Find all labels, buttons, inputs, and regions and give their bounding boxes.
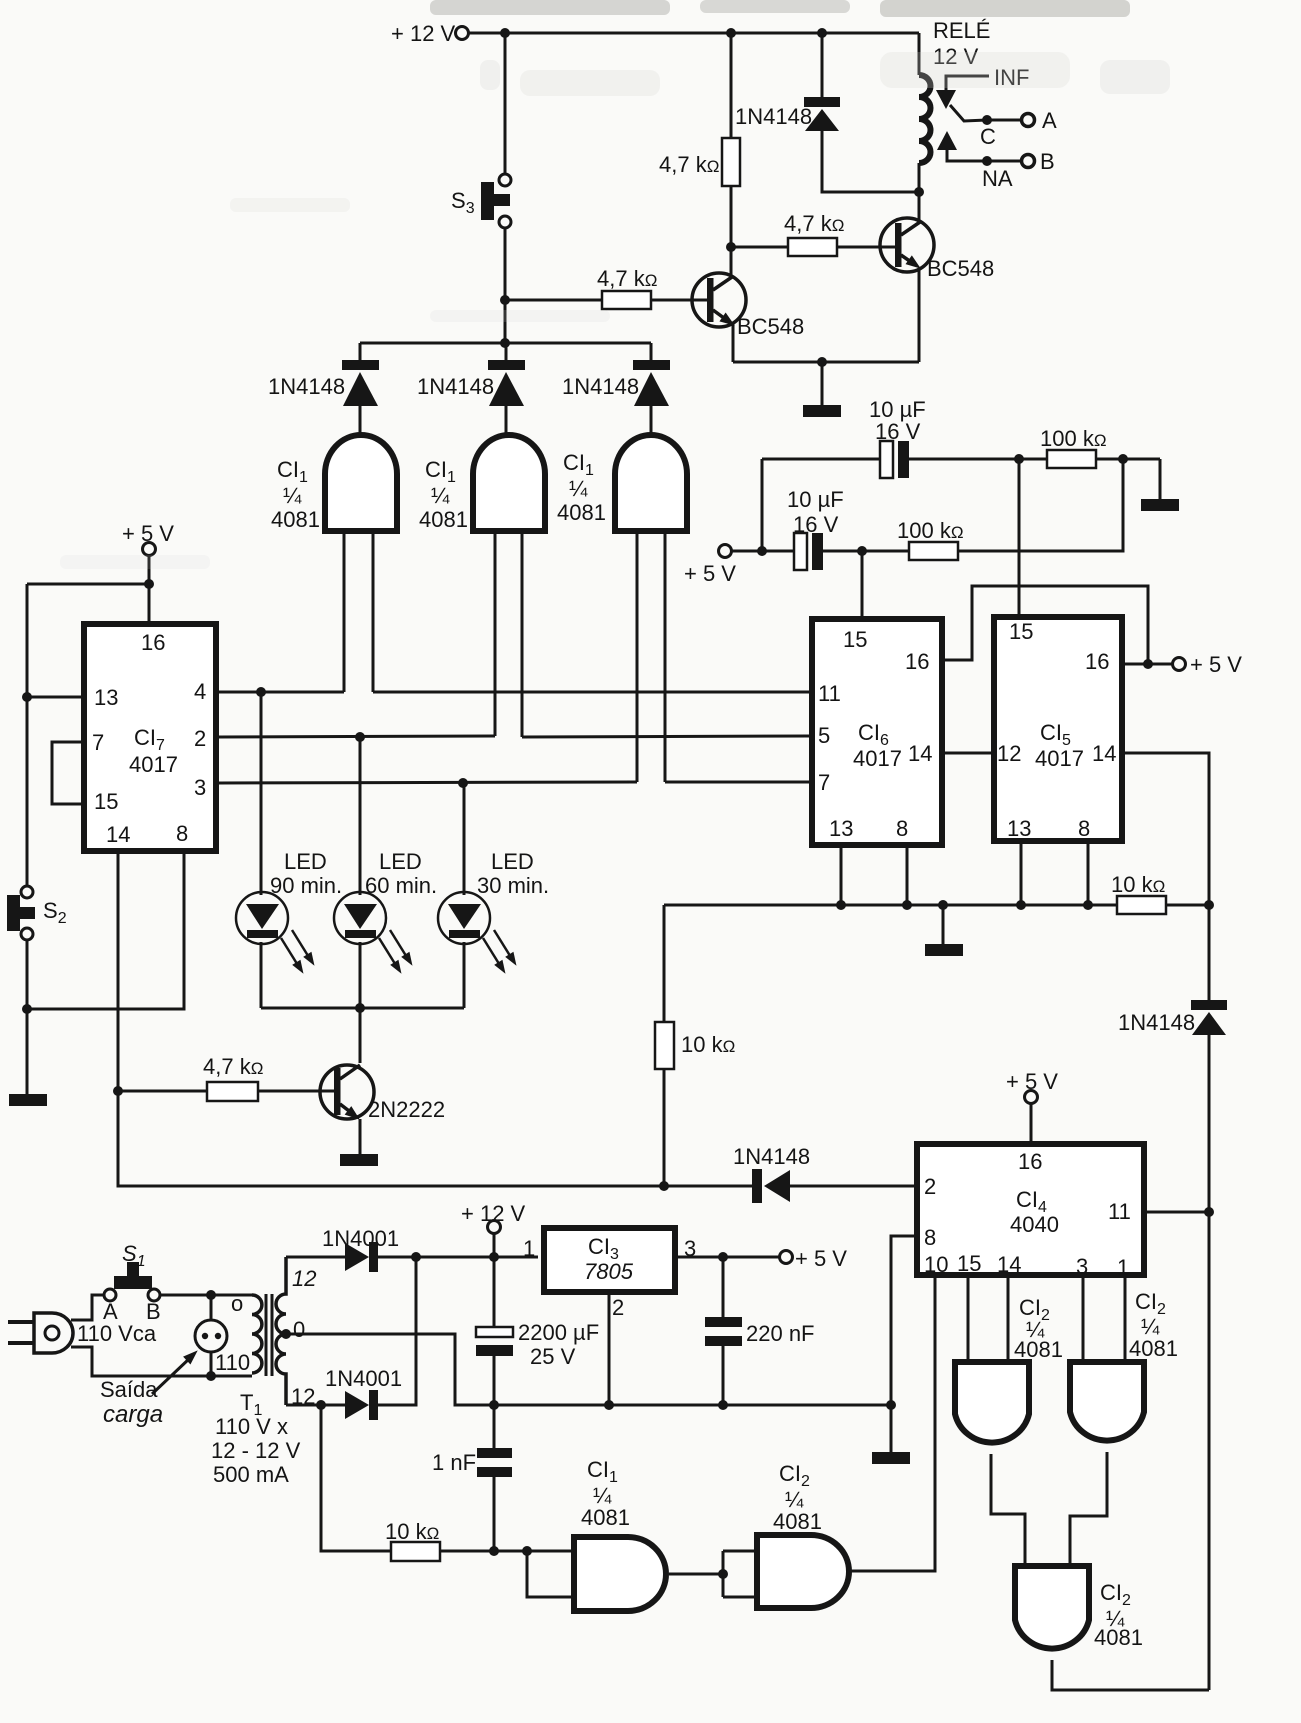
wire pin7-15 jumper — [52, 742, 81, 804]
switch S3 — [451, 174, 511, 228]
node junction CI5 pin15 tap — [1014, 454, 1024, 464]
node junction D6 column — [411, 1252, 421, 1262]
svg-text:14: 14 — [908, 741, 932, 766]
resistor R2 4,7k (base Q1) — [597, 266, 657, 309]
wire CI6 pin8 column — [906, 845, 909, 905]
node +5V terminal (CI4) — [1006, 1069, 1058, 1104]
node junction D4 column — [817, 28, 827, 38]
wire LED1 anode — [260, 692, 263, 895]
svg-text:S2: S2 — [43, 898, 67, 927]
node junction bracket lower — [757, 546, 767, 556]
wire R9 column — [321, 1405, 391, 1551]
svg-text:16 V: 16 V — [875, 419, 921, 444]
node junction R4 tap — [113, 1086, 123, 1096]
wire to CI7 pin13 — [27, 696, 81, 699]
wire U1b input R — [521, 534, 524, 737]
svg-text:1N4148: 1N4148 — [733, 1144, 810, 1169]
svg-text:2: 2 — [924, 1174, 936, 1199]
wire left column upper — [26, 584, 29, 886]
gate U2a CI1 1/4 4081 — [574, 1457, 666, 1611]
svg-text:14: 14 — [1092, 741, 1116, 766]
wire CI3 out — [675, 1256, 779, 1259]
wire CI4 pin15 column — [967, 1278, 970, 1362]
svg-text:CI1: CI1 — [587, 1457, 618, 1486]
svg-text:10 µF: 10 µF — [787, 487, 844, 512]
svg-text:4081: 4081 — [1094, 1625, 1143, 1650]
wire LED2 cathode — [359, 942, 362, 1008]
node junction LED1 tap — [256, 687, 266, 697]
svg-text:¼: ¼ — [283, 483, 302, 508]
wire bracket vertical — [761, 459, 764, 551]
wire R1 bottom — [730, 186, 733, 247]
svg-text:11: 11 — [818, 681, 841, 706]
svg-text:16: 16 — [1085, 649, 1109, 674]
wire LED3 cathode — [463, 942, 466, 1008]
wire D7 bottom — [1208, 1035, 1211, 1690]
wire reset row — [664, 904, 1117, 907]
svg-text:1N4148: 1N4148 — [268, 374, 345, 399]
capacitor C5 1nF — [432, 1405, 512, 1551]
svg-text:110 Vca: 110 Vca — [77, 1321, 157, 1346]
svg-text:7: 7 — [818, 770, 830, 795]
wire C2 right — [823, 550, 909, 553]
node junction rail/S3 — [500, 338, 510, 348]
node junction LED3 tap — [458, 778, 468, 788]
wire R2 right to Q1 base — [651, 299, 707, 302]
svg-text:4081: 4081 — [773, 1509, 822, 1534]
wire row pin4 left — [219, 691, 344, 694]
transformer T1 — [211, 1257, 316, 1487]
svg-text:3: 3 — [1076, 1254, 1088, 1279]
node junction U3a input — [718, 1569, 728, 1579]
resistor R5 100k — [1040, 426, 1107, 468]
diode D8 1N4148 (to CI4 pin2) — [664, 1144, 810, 1203]
node junction CI6 pin15 tap — [857, 546, 867, 556]
plug 110Vca — [8, 1313, 157, 1353]
wire D7 top — [1208, 905, 1211, 1000]
svg-text:4081: 4081 — [557, 500, 606, 525]
svg-text:15: 15 — [957, 1251, 981, 1276]
svg-text:16: 16 — [141, 630, 165, 655]
svg-text:100 kΩ: 100 kΩ — [1040, 426, 1107, 451]
IC CI7 4017 — [84, 624, 216, 851]
svg-text:1N4148: 1N4148 — [735, 104, 812, 129]
svg-text:1N4148: 1N4148 — [417, 374, 494, 399]
svg-text:C: C — [980, 124, 996, 149]
wire pin8 column — [27, 854, 184, 1009]
svg-text:30 min.: 30 min. — [477, 873, 549, 898]
wire ground stub (rail) — [890, 1405, 893, 1452]
diode D2 1N4148 — [417, 343, 525, 438]
gate U1b CI1 1/4 4081 — [419, 435, 545, 532]
svg-text:LED: LED — [379, 849, 422, 874]
svg-text:90 min.: 90 min. — [270, 873, 342, 898]
svg-text:+ 12 V: + 12 V — [461, 1201, 526, 1226]
wire ground stub (osc) — [1159, 459, 1162, 499]
wire S1 to primary top — [160, 1294, 252, 1297]
svg-text:1: 1 — [523, 1236, 535, 1261]
diode D7 1N4148 (right) — [1118, 1000, 1227, 1035]
svg-text:3: 3 — [194, 775, 206, 800]
svg-text:4017: 4017 — [129, 752, 178, 777]
svg-text:4,7 kΩ: 4,7 kΩ — [659, 152, 719, 177]
resistor R6 100k — [897, 518, 964, 560]
diode D1 1N4148 — [268, 343, 379, 438]
wire CI4 pin1 column — [1124, 1278, 1127, 1362]
svg-text:+ 5 V: + 5 V — [122, 521, 174, 546]
node junction CI6 pin8 — [902, 900, 912, 910]
resistor R1 4,7k (vertical) — [659, 138, 740, 186]
wire CI5 pin16 stub — [1125, 663, 1148, 666]
wire R4 left — [118, 1090, 207, 1093]
socket saida carga — [100, 1295, 227, 1428]
svg-text:RELÉ: RELÉ — [933, 18, 990, 43]
relay contact NA/B — [937, 131, 1055, 191]
wire U3d output — [1052, 1660, 1209, 1690]
node junction Q1C/R1/R3 — [726, 242, 736, 252]
diode D3 1N4148 — [562, 343, 670, 438]
wire CI5 pin8 column — [1087, 841, 1090, 905]
wire U1a input R — [372, 534, 375, 692]
transistor Q3 2N2222 — [320, 1065, 445, 1124]
wire S3 upper — [504, 33, 507, 174]
diode D5 1N4001 — [322, 1226, 399, 1272]
node junction CI5 pin13 — [1016, 900, 1026, 910]
wire D5 to CI3 pin1 — [378, 1256, 538, 1259]
IC CI4 4040 — [917, 1144, 1144, 1280]
svg-text:10 kΩ: 10 kΩ — [385, 1519, 439, 1544]
node junction C4 bottom — [718, 1400, 728, 1410]
wire row pin4 to CI6 pin11 — [373, 691, 809, 694]
svg-text:500 mA: 500 mA — [213, 1462, 289, 1487]
wire LED cathode row — [261, 1007, 464, 1010]
node junction R5/R6 — [1118, 454, 1128, 464]
wire +12V rail — [469, 32, 919, 35]
wire row pin3 left — [219, 782, 637, 783]
svg-text:S3: S3 — [451, 188, 475, 217]
node junction ground stub — [938, 900, 948, 910]
ground (reset row) — [925, 944, 963, 956]
relay contact INF/C/A — [936, 65, 1057, 149]
LED LED2 60 min — [334, 849, 437, 976]
ground (Q3) — [340, 1154, 378, 1166]
node +5V terminal (CI7) — [122, 521, 174, 556]
resistor R7 10k — [1111, 872, 1166, 914]
svg-text:BC548: BC548 — [737, 314, 804, 339]
gate U1a CI1 1/4 4081 — [271, 435, 397, 532]
wire CI5 pin14 out — [1122, 753, 1209, 905]
wire S3 lower — [504, 228, 507, 343]
node junction CI6 pin13 — [836, 900, 846, 910]
wire S2 lower — [26, 940, 29, 1094]
node junction pin8 rail — [886, 1400, 896, 1410]
svg-text:0: 0 — [293, 1317, 305, 1342]
wire emitter row — [733, 361, 919, 364]
ground (osc) — [1141, 499, 1179, 511]
wire Q3 collector — [359, 1008, 362, 1063]
node junction CI5 pin8 — [1083, 900, 1093, 910]
node junction R9 tap — [316, 1400, 326, 1410]
svg-text:13: 13 — [829, 816, 853, 841]
svg-text:Saída: Saída — [100, 1377, 158, 1402]
ground (S2) — [9, 1094, 47, 1106]
svg-text:14: 14 — [106, 822, 130, 847]
wire Q1 emitter down — [732, 324, 735, 362]
wire CI5 pin13 column — [1020, 841, 1023, 905]
svg-text:CI1: CI1 — [563, 450, 594, 479]
LED LED3 30 min — [438, 849, 549, 976]
svg-text:+ 5 V: + 5 V — [1006, 1069, 1058, 1094]
svg-text:4081: 4081 — [271, 507, 320, 532]
wire U3c output — [1070, 1452, 1107, 1566]
svg-text:14: 14 — [997, 1252, 1021, 1277]
svg-text:15: 15 — [843, 627, 867, 652]
svg-text:4017: 4017 — [1035, 746, 1084, 771]
svg-text:¼: ¼ — [431, 483, 450, 508]
svg-text:B: B — [146, 1299, 161, 1324]
wire U3b output — [991, 1454, 1025, 1566]
LED LED1 90 min — [236, 849, 342, 976]
wire CI6 pin14 to CI5 pin12 — [945, 752, 994, 755]
wire CI4 pin11 out — [1144, 1211, 1209, 1214]
IC CI3 7805 — [523, 1228, 696, 1320]
svg-text:15: 15 — [1009, 619, 1033, 644]
node junction +5V branch — [144, 579, 154, 589]
svg-text:4017: 4017 — [853, 746, 902, 771]
wire C1 right — [909, 458, 1047, 461]
gate U3d CI2 1/4 4081 (bottom) — [1015, 1566, 1143, 1650]
svg-text:+ 5 V: + 5 V — [1190, 652, 1242, 677]
diode D4 1N4148 (relay clamp) — [735, 97, 840, 131]
gate U1c CI1 1/4 4081 — [557, 435, 687, 531]
wire Q2 collector up — [918, 192, 921, 221]
wire CI6 pin15 column — [861, 551, 864, 616]
wire R3 right to Q2 base — [837, 246, 895, 249]
wire R9 right — [440, 1550, 574, 1553]
wire center tap / ground rail — [286, 1334, 891, 1405]
wire ground stub (reset row) — [942, 905, 945, 944]
svg-text:4,7 kΩ: 4,7 kΩ — [597, 266, 657, 291]
svg-text:A: A — [1042, 108, 1057, 133]
resistor R4 4,7k (base Q3) — [203, 1054, 263, 1101]
node junction S3 column — [500, 28, 510, 38]
wire CI5 pin15 column — [1018, 459, 1021, 614]
wire R7 right — [1166, 904, 1209, 907]
wire Q2 emitter down — [918, 268, 921, 362]
wire U2a output — [669, 1573, 723, 1576]
svg-text:5: 5 — [818, 723, 830, 748]
svg-text:7805: 7805 — [584, 1259, 634, 1284]
node junction S2/pin8 row — [22, 1004, 32, 1014]
wire osc row lower — [732, 550, 794, 553]
wire LED3 anode — [463, 783, 466, 895]
svg-text:CI1: CI1 — [277, 457, 308, 486]
node junction LED2 tap — [355, 732, 365, 742]
wire +5V to CI4 pin16 — [1030, 1104, 1033, 1141]
node junction C5 bottom — [489, 1546, 499, 1556]
wire plug bottom — [71, 1347, 252, 1376]
wire U2a input bracket — [527, 1551, 574, 1597]
svg-text:60 min.: 60 min. — [365, 873, 437, 898]
capacitor C4 220nF — [705, 1257, 815, 1405]
svg-text:1N4001: 1N4001 — [322, 1226, 399, 1251]
wire ground stub — [821, 362, 824, 405]
svg-text:13: 13 — [94, 685, 118, 710]
svg-text:LED: LED — [284, 849, 327, 874]
wire U1c input R — [664, 534, 667, 782]
svg-text:12: 12 — [292, 1266, 316, 1291]
node junction emitter row — [817, 357, 827, 367]
svg-text:2200 µF: 2200 µF — [518, 1320, 599, 1345]
svg-text:8: 8 — [176, 821, 188, 846]
svg-text:B: B — [1040, 149, 1055, 174]
capacitor C3 2200uF 25V — [476, 1257, 599, 1405]
svg-text:S1: S1 — [122, 1241, 146, 1270]
wire U1a input L — [343, 534, 346, 692]
resistor R3 4,7k (base Q2) — [784, 211, 844, 256]
switch S1 — [103, 1241, 161, 1324]
node junction relay bottom — [914, 187, 924, 197]
svg-text:1N4001: 1N4001 — [325, 1366, 402, 1391]
wire R5 right — [1096, 458, 1160, 461]
svg-text:¼: ¼ — [569, 476, 588, 501]
diode D6 1N4001 — [325, 1366, 402, 1420]
wire D4 bottom — [822, 131, 919, 192]
ground (rail) — [872, 1452, 910, 1464]
wire R2 left — [505, 299, 602, 302]
node junction C3 bottom — [489, 1400, 499, 1410]
wire D6 cathode up — [378, 1257, 416, 1405]
gate U3b CI2 1/4 4081 (left vertical) — [955, 1295, 1063, 1443]
wire U1c input L — [636, 534, 639, 782]
svg-text:+ 5 V: + 5 V — [795, 1246, 847, 1271]
svg-text:1N4148: 1N4148 — [562, 374, 639, 399]
resistor R8 10k (vertical) — [655, 1022, 735, 1069]
wire D4 top — [821, 33, 824, 97]
svg-text:1N4148: 1N4148 — [1118, 1010, 1195, 1035]
node +5V terminal (psu) — [780, 1246, 848, 1271]
svg-text:16 V: 16 V — [793, 512, 839, 537]
wire CI4 pin10 column — [851, 1278, 935, 1571]
svg-text:11: 11 — [1108, 1199, 1131, 1224]
svg-text:10: 10 — [924, 1252, 948, 1277]
wire CI4 pin14 column — [1007, 1278, 1010, 1362]
wire row pin2 left — [219, 736, 495, 737]
wire R4 right to Q3 base — [258, 1090, 334, 1093]
transistor Q2 BC548 — [880, 218, 994, 281]
node junction pin16 — [1143, 659, 1153, 669]
wire diode rail — [360, 342, 651, 345]
capacitor C1 10uF 16V — [869, 397, 926, 478]
wire CI4 pin3 column — [1082, 1278, 1085, 1362]
relay RELE 12V coil — [919, 18, 990, 192]
svg-text:15: 15 — [94, 789, 118, 814]
wire R6 right up — [958, 459, 1123, 551]
wire left column reset — [663, 905, 666, 1022]
wire CI6 pin16 to CI5 pin16 — [945, 586, 1148, 664]
svg-text:4,7 kΩ: 4,7 kΩ — [784, 211, 844, 236]
capacitor C2 10uF 16V — [787, 487, 844, 570]
svg-text:A: A — [103, 1299, 118, 1324]
svg-text:4081: 4081 — [1014, 1337, 1063, 1362]
svg-text:4: 4 — [194, 679, 206, 704]
wire LED2 anode — [359, 737, 362, 895]
svg-text:10 kΩ: 10 kΩ — [1111, 872, 1165, 897]
IC CI6 4017 — [812, 619, 942, 845]
svg-text:CI2: CI2 — [779, 1461, 810, 1490]
node junction R7/D7 — [1204, 900, 1214, 910]
wire Q1 collector up — [730, 247, 733, 276]
svg-text:4081: 4081 — [581, 1505, 630, 1530]
node junction U2a input — [522, 1546, 532, 1556]
wire CI4 pin8 — [891, 1236, 917, 1405]
IC CI5 4017 — [994, 617, 1122, 841]
wire LED1 cathode — [260, 942, 263, 1008]
switch S2 — [7, 886, 67, 940]
node junction R1 column — [726, 28, 736, 38]
svg-text:1: 1 — [1117, 1255, 1129, 1280]
wire Q3 emitter — [359, 1119, 362, 1154]
node junction C3 column — [489, 1252, 499, 1262]
svg-text:NA: NA — [982, 166, 1013, 191]
svg-text:110: 110 — [215, 1350, 250, 1375]
svg-text:8: 8 — [924, 1225, 936, 1250]
wire row pin3 to CI6 pin7 — [665, 781, 809, 784]
node +5V terminal (CI5) — [1148, 652, 1242, 677]
svg-text:8: 8 — [1078, 816, 1090, 841]
svg-text:10 kΩ: 10 kΩ — [681, 1032, 735, 1057]
gate U3a CI2 1/4 4081 — [757, 1461, 849, 1608]
svg-text:12: 12 — [997, 741, 1021, 766]
svg-text:4040: 4040 — [1010, 1212, 1059, 1237]
svg-text:CI1: CI1 — [425, 457, 456, 486]
transistor Q1 BC548 — [692, 273, 804, 339]
svg-text:LED: LED — [491, 849, 534, 874]
wire secondary bottom tap — [286, 1404, 345, 1407]
wire R8 bottom — [663, 1069, 666, 1186]
node junction C4 column — [718, 1252, 728, 1262]
svg-text:BC548: BC548 — [927, 256, 994, 281]
wire secondary top tap — [286, 1256, 345, 1259]
svg-text:CI2: CI2 — [1100, 1580, 1131, 1609]
svg-text:25 V: 25 V — [530, 1344, 576, 1369]
node junction pin13 — [22, 692, 32, 702]
node +12V terminal (psu) — [461, 1201, 526, 1257]
svg-text:100 kΩ: 100 kΩ — [897, 518, 964, 543]
wire +5V branch left — [27, 583, 149, 586]
svg-text:2: 2 — [194, 726, 206, 751]
node junction Q3 collector — [355, 1003, 365, 1013]
svg-text:220 nF: 220 nF — [746, 1321, 815, 1346]
node junction R8/row — [659, 1181, 669, 1191]
svg-text:o: o — [231, 1291, 243, 1316]
wire pin14 column — [118, 854, 664, 1186]
node +12V terminal — [391, 21, 469, 46]
wire D8 to CI4 pin2 — [790, 1185, 914, 1188]
svg-text:8: 8 — [896, 816, 908, 841]
svg-text:13: 13 — [1007, 816, 1031, 841]
node +5V terminal (oscillator) — [684, 545, 736, 587]
ground (emitters) — [803, 405, 841, 417]
wire R1 top — [730, 33, 733, 138]
wire U1b input L — [494, 534, 497, 736]
gate U3c CI2 1/4 4081 (right vertical) — [1070, 1289, 1178, 1441]
svg-text:2: 2 — [612, 1295, 624, 1320]
svg-text:16: 16 — [1018, 1149, 1042, 1174]
wire CI3 pin2 down — [608, 1292, 611, 1405]
svg-text:4,7 kΩ: 4,7 kΩ — [203, 1054, 263, 1079]
svg-text:1 nF: 1 nF — [432, 1450, 476, 1475]
